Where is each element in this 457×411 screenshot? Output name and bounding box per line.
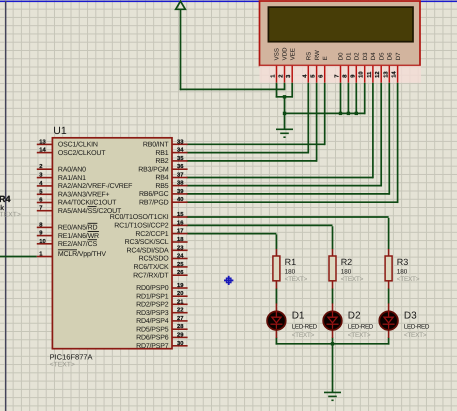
svg-text:D2: D2 [348,311,361,322]
svg-text:RC2/CCP1: RC2/CCP1 [135,230,168,238]
svg-text:D2: D2 [354,52,361,60]
svg-text:36: 36 [177,163,184,170]
svg-text:VEE: VEE [289,48,296,60]
svg-text:RB7/PGD: RB7/PGD [139,198,169,206]
svg-text:28: 28 [177,323,184,330]
svg-text:RE2/AN7/CS: RE2/AN7/CS [58,240,98,248]
svg-text:RC5/SDO: RC5/SDO [139,255,170,263]
svg-text:34: 34 [177,147,184,154]
svg-text:RD1/PSP1: RD1/PSP1 [136,292,169,300]
svg-text:23: 23 [177,244,184,251]
svg-text:<TEXT>: <TEXT> [0,212,21,219]
svg-text:OSC2/CLKOUT: OSC2/CLKOUT [58,149,106,157]
svg-text:PIC16F877A: PIC16F877A [50,353,93,362]
svg-text:21: 21 [177,298,184,305]
svg-text:VSS: VSS [274,48,281,60]
svg-text:17: 17 [177,229,183,235]
svg-text:D0: D0 [338,52,345,60]
svg-text:MCLR/Vpp/THV: MCLR/Vpp/THV [58,250,107,258]
svg-text:RB4: RB4 [155,175,168,182]
svg-text:RA4/T0CKI/C1OUT: RA4/T0CKI/C1OUT [58,199,117,207]
svg-text:RC6/TX/CK: RC6/TX/CK [134,263,169,271]
svg-text:RB3/PGM: RB3/PGM [138,165,169,173]
svg-text:RD7/PSP7: RD7/PSP7 [136,342,169,350]
svg-text:D1: D1 [292,311,305,322]
svg-text:RD2/PSP2: RD2/PSP2 [136,301,169,309]
svg-text:13: 13 [39,138,46,145]
svg-text:RA0/AN0: RA0/AN0 [58,165,86,173]
svg-text:180: 180 [397,268,408,275]
svg-text:40: 40 [177,196,183,203]
svg-text:22: 22 [177,307,183,314]
svg-text:RE0/AN5/RD: RE0/AN5/RD [58,224,98,232]
svg-text:14: 14 [392,71,398,78]
svg-text:RB6/PGC: RB6/PGC [139,190,169,198]
svg-text:7: 7 [39,206,42,212]
svg-text:U1: U1 [53,125,67,137]
svg-text:30: 30 [177,340,183,347]
svg-text:20: 20 [177,290,183,297]
svg-text:D4: D4 [370,52,377,60]
svg-text:RA1/AN1: RA1/AN1 [58,174,86,182]
svg-text:RA3/AN3/VREF+: RA3/AN3/VREF+ [58,191,110,199]
svg-text:R3: R3 [397,257,409,267]
svg-text:39: 39 [177,188,184,195]
svg-text:RC7/RX/DT: RC7/RX/DT [133,271,169,279]
svg-text:RB5: RB5 [155,183,168,190]
svg-text:RB1: RB1 [155,150,168,157]
svg-text:<TEXT>: <TEXT> [341,276,364,283]
svg-text:RS: RS [306,52,313,60]
svg-text:<TEXT>: <TEXT> [404,332,427,339]
svg-text:7: 7 [335,75,341,78]
svg-text:R4: R4 [0,194,11,204]
svg-text:26: 26 [177,269,184,276]
svg-text:24: 24 [177,253,184,260]
svg-text:RD4/PSP4: RD4/PSP4 [136,317,169,325]
svg-text:<TEXT>: <TEXT> [348,332,371,339]
svg-text:RW: RW [314,50,321,60]
svg-text:33: 33 [177,138,184,145]
svg-text:LED-RED: LED-RED [292,323,318,330]
svg-text:<TEXT>: <TEXT> [285,276,308,283]
svg-text:35: 35 [177,155,184,162]
svg-text:RD6/PSP6: RD6/PSP6 [136,334,169,342]
svg-text:13: 13 [382,71,389,78]
svg-text:2: 2 [39,163,42,170]
svg-text:LED-RED: LED-RED [404,323,430,330]
svg-text:29: 29 [177,331,184,338]
svg-text:RE1/AN6/WR: RE1/AN6/WR [58,232,99,240]
svg-text:RB2: RB2 [155,158,168,165]
svg-text:12: 12 [374,71,381,77]
svg-text:R1: R1 [285,257,297,267]
svg-text:R2: R2 [341,257,353,267]
svg-text:38: 38 [177,180,184,187]
svg-text:<TEXT>: <TEXT> [50,362,75,369]
svg-text:D3: D3 [404,311,417,322]
svg-text:25: 25 [177,261,184,268]
svg-text:10: 10 [39,238,45,245]
svg-text:2: 2 [278,75,285,78]
svg-text:16: 16 [177,219,184,226]
svg-text:LED-RED: LED-RED [348,323,374,330]
svg-text:27: 27 [177,315,183,322]
svg-text:11: 11 [367,71,373,78]
svg-text:RC1/T1OSI/CCP2: RC1/T1OSI/CCP2 [114,222,169,230]
svg-text:180: 180 [341,268,352,275]
svg-text:D5: D5 [378,52,385,60]
svg-text:D6: D6 [387,52,394,60]
svg-text:37: 37 [177,172,183,179]
svg-text:VDD: VDD [282,47,289,60]
svg-text:<TEXT>: <TEXT> [292,332,315,339]
svg-text:RC0/T1OSO/T1CKI: RC0/T1OSO/T1CKI [110,213,169,221]
svg-text:18: 18 [177,236,184,243]
svg-text:19: 19 [177,282,184,289]
svg-text:RD5/PSP5: RD5/PSP5 [136,325,169,333]
svg-text:10: 10 [358,71,365,77]
svg-text:15: 15 [177,212,184,218]
svg-text:D7: D7 [395,52,402,60]
svg-text:180: 180 [285,268,296,275]
svg-text:RB0/INT: RB0/INT [143,141,169,149]
svg-text:E: E [322,56,329,60]
svg-text:D1: D1 [346,52,353,60]
svg-text:14: 14 [39,148,46,154]
svg-text:<TEXT>: <TEXT> [397,276,420,283]
svg-text:RD0/PSP0: RD0/PSP0 [136,284,169,292]
svg-text:RC3/SCK/SCL: RC3/SCK/SCL [125,238,169,246]
svg-text:RC4/SDI/SDA: RC4/SDI/SDA [127,247,169,255]
svg-text:OSC1/CLKIN: OSC1/CLKIN [58,141,98,149]
svg-text:RD3/PSP3: RD3/PSP3 [136,309,169,317]
svg-text:RA2/AN2/VREF-/CVREF: RA2/AN2/VREF-/CVREF [58,182,132,190]
svg-text:D3: D3 [362,52,369,60]
